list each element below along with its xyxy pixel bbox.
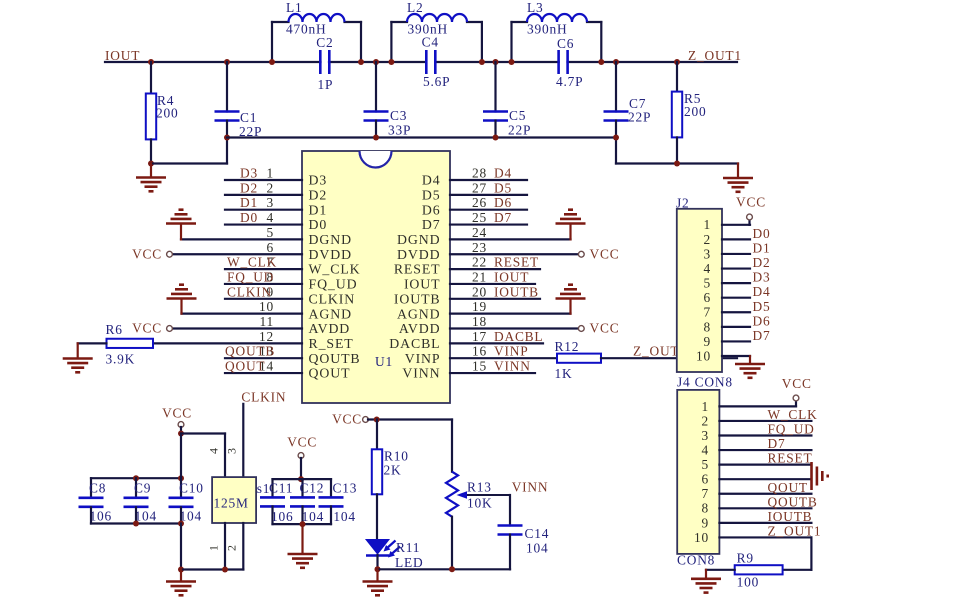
wire U1 pin 21 bbox=[450, 283, 535, 285]
wire C1 bottom lead bbox=[226, 121, 228, 164]
ground left of pin 5 bbox=[166, 210, 196, 224]
svg-text:CON8: CON8 bbox=[677, 553, 715, 568]
wire U1 pin 10 bbox=[182, 313, 303, 315]
svg-text:1: 1 bbox=[207, 545, 221, 551]
svg-text:9: 9 bbox=[702, 515, 710, 530]
wire R4 to C1 bottom bbox=[151, 162, 227, 164]
svg-text:10: 10 bbox=[259, 299, 274, 314]
capacitor C12 bbox=[290, 496, 315, 499]
ground J4 pin6 bbox=[812, 462, 828, 490]
ground right of pin 19 bbox=[556, 285, 586, 299]
svg-text:4: 4 bbox=[267, 210, 275, 225]
svg-text:6: 6 bbox=[267, 240, 275, 255]
junction L3 left bbox=[509, 59, 515, 65]
svg-text:DVDD: DVDD bbox=[397, 247, 440, 262]
svg-text:17: 17 bbox=[472, 329, 487, 344]
svg-text:VINN: VINN bbox=[494, 359, 531, 374]
power port VCC left pin6 bbox=[167, 251, 173, 257]
ground below R4 bbox=[136, 178, 166, 192]
svg-text:22: 22 bbox=[472, 255, 487, 270]
wire J2 pin 6 bbox=[722, 297, 750, 299]
svg-text:QOUTB: QOUTB bbox=[225, 344, 275, 359]
connector J4 body bbox=[677, 390, 719, 554]
wire LED cathode lead bbox=[376, 555, 378, 569]
wire U1 pin 12 bbox=[153, 342, 302, 344]
wire U1 pin 19 bbox=[450, 313, 571, 315]
svg-text:D3: D3 bbox=[240, 166, 258, 181]
svg-text:Z_OUT1: Z_OUT1 bbox=[768, 523, 822, 538]
wire L3 right riser bbox=[600, 22, 602, 62]
svg-text:C10: C10 bbox=[179, 481, 204, 496]
wire R5 top lead bbox=[676, 62, 678, 92]
svg-text:VCC: VCC bbox=[782, 376, 812, 391]
svg-text:22P: 22P bbox=[508, 123, 531, 138]
junction C3 tap bbox=[373, 59, 379, 65]
wire osc vcc stem bbox=[180, 427, 182, 434]
wire J4 pin 3 bbox=[719, 434, 811, 436]
svg-text:2K: 2K bbox=[384, 463, 402, 478]
svg-text:R6: R6 bbox=[106, 322, 123, 337]
svg-text:C8: C8 bbox=[89, 481, 106, 496]
ground right of pin 24 bbox=[556, 210, 586, 224]
svg-text:6: 6 bbox=[704, 290, 712, 305]
svg-text:1: 1 bbox=[267, 166, 275, 181]
wire R10 to LED bbox=[376, 494, 378, 539]
svg-text:104: 104 bbox=[302, 509, 325, 524]
svg-text:C3: C3 bbox=[390, 108, 407, 123]
wire vcc vertical to rail bbox=[180, 434, 182, 479]
junction R5 tap bbox=[674, 59, 680, 65]
wire J2 pin 8 bbox=[722, 326, 750, 328]
wire R5 bottom lead bbox=[676, 137, 678, 163]
svg-text:4.7P: 4.7P bbox=[556, 74, 583, 89]
wire J4 pin 8 bbox=[719, 507, 811, 509]
wire C7 top lead bbox=[615, 62, 617, 112]
svg-text:W_CLK: W_CLK bbox=[227, 255, 277, 270]
junction R5 gnd node bbox=[674, 161, 680, 167]
wire U1 pin 8 bbox=[225, 283, 302, 285]
ground stem pin5 bbox=[180, 226, 182, 240]
svg-text:VCC: VCC bbox=[332, 412, 362, 427]
wire U1 pin 28 bbox=[450, 179, 527, 181]
wire right gnd rail bbox=[616, 162, 738, 164]
svg-text:C5: C5 bbox=[509, 108, 526, 123]
inductor L1 bbox=[272, 14, 361, 22]
ground below LED bbox=[363, 582, 393, 596]
ground stem pin19 bbox=[569, 301, 571, 314]
svg-text:VINP: VINP bbox=[405, 351, 441, 366]
svg-text:9: 9 bbox=[704, 334, 712, 349]
capacitor C10 bbox=[169, 496, 194, 499]
ground stem filter right bbox=[737, 164, 739, 178]
svg-text:C2: C2 bbox=[316, 35, 333, 50]
junction gnd rail node bbox=[178, 567, 184, 573]
svg-text:4: 4 bbox=[207, 448, 221, 454]
wire bottom rail R10 group bbox=[378, 568, 511, 570]
svg-text:4: 4 bbox=[704, 261, 712, 276]
wire U1 pin 13 bbox=[225, 357, 302, 359]
junction C7 tap bbox=[613, 59, 619, 65]
junction C7 rail node bbox=[613, 135, 619, 141]
wire J4 pin1 riser bbox=[795, 401, 797, 407]
wire R10 top lead bbox=[376, 420, 378, 450]
wire U1 pin 9 bbox=[225, 298, 302, 300]
svg-text:3: 3 bbox=[267, 195, 275, 210]
wire U1 pin 3 bbox=[225, 209, 302, 211]
power port VCC R10 supply bbox=[363, 417, 369, 423]
LED R11 bbox=[366, 540, 400, 558]
ground stem oscillator bbox=[180, 570, 182, 581]
junction C3 rail node bbox=[373, 135, 379, 141]
wire U1 pin 11 bbox=[172, 327, 302, 329]
svg-text:RESET: RESET bbox=[494, 255, 539, 270]
svg-text:100: 100 bbox=[737, 575, 760, 590]
wire U1 pin 23 bbox=[450, 253, 577, 255]
svg-text:12: 12 bbox=[259, 329, 274, 344]
svg-text:VCC: VCC bbox=[132, 246, 162, 261]
wire C12 top lead bbox=[301, 479, 303, 497]
potentiometer R13 bbox=[446, 472, 458, 517]
wire C14 bottom lead bbox=[509, 535, 511, 570]
svg-text:VCC: VCC bbox=[162, 406, 192, 421]
wire U1 pin 24 bbox=[450, 238, 571, 240]
wire L3 left riser bbox=[510, 22, 512, 62]
svg-text:D3: D3 bbox=[309, 173, 328, 188]
svg-text:2: 2 bbox=[704, 232, 712, 247]
wire filter bottom rail bbox=[227, 136, 616, 138]
junction R13 gnd node bbox=[449, 566, 455, 572]
svg-text:1: 1 bbox=[702, 399, 710, 414]
svg-text:VINP: VINP bbox=[494, 344, 528, 359]
power port VCC J2 pin1 bbox=[747, 214, 753, 220]
svg-text:23: 23 bbox=[472, 240, 487, 255]
svg-text:19: 19 bbox=[472, 299, 487, 314]
ground stem R6 bbox=[77, 343, 79, 357]
junction L1 left bbox=[269, 59, 275, 65]
junction L2 right bbox=[479, 59, 485, 65]
svg-text:10K: 10K bbox=[467, 496, 492, 511]
svg-text:L1: L1 bbox=[286, 0, 302, 15]
wire R4 top lead bbox=[150, 62, 152, 94]
wire J2 pin 5 bbox=[722, 282, 750, 284]
ground stem C12 group bbox=[301, 524, 303, 553]
svg-text:104: 104 bbox=[526, 541, 549, 556]
wire C9 top lead bbox=[135, 478, 137, 497]
wire U1 pin 2 bbox=[225, 194, 302, 196]
wire CLKIN to osc pin3 bbox=[242, 404, 244, 477]
wire U1 pin 18 bbox=[450, 327, 577, 329]
svg-text:VINN: VINN bbox=[512, 480, 549, 495]
wire osc pin4 bbox=[224, 434, 226, 478]
svg-text:18: 18 bbox=[472, 314, 487, 329]
capacitor C8 bbox=[79, 496, 104, 499]
wire C14 top link bbox=[509, 495, 511, 526]
wire U1 pin 15 bbox=[450, 372, 535, 374]
svg-text:C4: C4 bbox=[422, 35, 439, 50]
svg-text:D2: D2 bbox=[240, 180, 258, 195]
svg-text:21: 21 bbox=[472, 269, 487, 284]
junction C1 tap bbox=[224, 59, 230, 65]
svg-text:R11: R11 bbox=[396, 540, 420, 555]
svg-text:D6: D6 bbox=[494, 195, 512, 210]
junction C5 tap bbox=[493, 59, 499, 65]
svg-text:AVDD: AVDD bbox=[399, 321, 441, 336]
svg-text:DACBL: DACBL bbox=[389, 336, 440, 351]
wire U1 pin 6 bbox=[172, 253, 302, 255]
svg-text:D1: D1 bbox=[309, 202, 328, 217]
wire R9 right link bbox=[783, 569, 812, 571]
wire main rail seg4 to Z_OUT1 bbox=[568, 61, 738, 63]
svg-text:10: 10 bbox=[694, 530, 709, 545]
ground stem R9 bbox=[705, 570, 707, 578]
wire C5 top lead bbox=[494, 62, 496, 112]
ground left of pin 10 bbox=[167, 285, 197, 299]
svg-text:R13: R13 bbox=[467, 480, 492, 495]
svg-text:VCC: VCC bbox=[132, 321, 162, 336]
wire U1 pin 7 bbox=[225, 268, 302, 270]
svg-text:FQ_UD: FQ_UD bbox=[227, 269, 274, 284]
ground below oscillator bbox=[166, 582, 196, 596]
wire main rail seg3 bbox=[435, 61, 558, 63]
wire osc gnd rail bbox=[181, 568, 243, 570]
wire R4 bottom lead bbox=[150, 139, 152, 163]
svg-text:QOUT: QOUT bbox=[225, 359, 265, 374]
svg-text:IOUT: IOUT bbox=[105, 48, 140, 63]
svg-text:R12: R12 bbox=[555, 339, 580, 354]
wire R9 left link bbox=[706, 569, 735, 571]
svg-text:3: 3 bbox=[225, 448, 239, 454]
svg-text:W_CLK: W_CLK bbox=[309, 262, 361, 277]
wire main rail seg1 IOUT bbox=[105, 61, 321, 63]
svg-text:IOUTB: IOUTB bbox=[494, 284, 539, 299]
svg-text:2: 2 bbox=[225, 545, 239, 551]
resistor R12 bbox=[557, 354, 601, 363]
svg-text:D3: D3 bbox=[753, 270, 771, 285]
svg-text:D6: D6 bbox=[422, 202, 441, 217]
wire C13 bottom lead bbox=[330, 506, 332, 524]
wire C12 bottom lead bbox=[301, 506, 303, 524]
wire J2 pin 1 bbox=[722, 224, 750, 226]
svg-text:D2: D2 bbox=[753, 255, 771, 270]
capacitor C9 bbox=[124, 496, 149, 499]
resistor R6 bbox=[107, 339, 154, 348]
svg-text:1P: 1P bbox=[318, 77, 334, 92]
svg-text:C12: C12 bbox=[300, 481, 325, 496]
wire C13 top lead bbox=[330, 479, 332, 497]
svg-text:D1: D1 bbox=[240, 195, 258, 210]
wire vcc feed bbox=[368, 418, 452, 420]
svg-text:QOUT: QOUT bbox=[768, 480, 808, 495]
wire caps right vcc stem bbox=[300, 458, 302, 479]
svg-text:15: 15 bbox=[472, 359, 487, 374]
svg-text:D4: D4 bbox=[753, 284, 771, 299]
svg-text:AVDD: AVDD bbox=[309, 321, 351, 336]
svg-text:DGND: DGND bbox=[397, 232, 440, 247]
svg-text:C14: C14 bbox=[525, 526, 550, 541]
wire L2 left riser bbox=[390, 22, 392, 62]
capacitor C4 bbox=[425, 50, 428, 74]
svg-text:D5: D5 bbox=[753, 299, 771, 314]
wire C8 bottom lead bbox=[90, 507, 92, 523]
svg-text:C11: C11 bbox=[269, 481, 293, 496]
svg-text:IOUTB: IOUTB bbox=[768, 509, 813, 524]
svg-text:104: 104 bbox=[333, 509, 356, 524]
svg-text:8: 8 bbox=[704, 319, 712, 334]
wire J2 pin 4 bbox=[722, 267, 750, 269]
wire C9 bottom lead bbox=[135, 507, 137, 523]
svg-text:5.6P: 5.6P bbox=[423, 74, 450, 89]
capacitor C2 bbox=[319, 50, 322, 74]
svg-text:10: 10 bbox=[696, 348, 711, 363]
svg-text:DGND: DGND bbox=[309, 232, 352, 247]
svg-text:D0: D0 bbox=[240, 210, 258, 225]
svg-text:D6: D6 bbox=[753, 313, 771, 328]
wire U1 pin 27 bbox=[450, 194, 527, 196]
wire J2 pin 9 bbox=[722, 340, 750, 342]
svg-text:QOUTB: QOUTB bbox=[768, 494, 818, 509]
wire caps2 top rail bbox=[273, 478, 332, 480]
inductor L3 bbox=[512, 14, 602, 22]
wire J4 pin 6 bbox=[719, 478, 811, 480]
svg-text:33P: 33P bbox=[388, 123, 411, 138]
wire U1 pin 4 bbox=[225, 223, 302, 225]
R13 wiper arrow bbox=[457, 491, 511, 499]
junction C9 bottom node bbox=[133, 521, 139, 527]
capacitor C5 bbox=[483, 110, 508, 113]
svg-text:16: 16 bbox=[472, 344, 487, 359]
wire C7 bottom lead bbox=[615, 121, 617, 164]
wire L1 right riser bbox=[360, 22, 362, 62]
svg-text:3: 3 bbox=[704, 246, 712, 261]
svg-text:AGND: AGND bbox=[397, 306, 440, 321]
wire C8 top lead bbox=[90, 478, 92, 497]
wire caps bottom rail bbox=[91, 522, 181, 524]
wire J2 pin1 riser bbox=[748, 220, 750, 225]
IC notch bbox=[360, 151, 392, 168]
wire R13 feed bbox=[451, 420, 453, 472]
svg-text:27: 27 bbox=[472, 180, 487, 195]
svg-text:D7: D7 bbox=[753, 328, 771, 343]
wire U1 pin 17 bbox=[450, 342, 543, 344]
wire J4 pin10 drop bbox=[810, 537, 812, 569]
svg-text:CLKIN: CLKIN bbox=[241, 390, 286, 405]
svg-text:7: 7 bbox=[702, 486, 710, 501]
resistor R4 bbox=[146, 94, 156, 140]
svg-text:R9: R9 bbox=[737, 551, 754, 566]
wire J4 pin 4 bbox=[719, 449, 811, 451]
wire C11 bottom lead bbox=[271, 506, 273, 524]
svg-text:200: 200 bbox=[156, 106, 179, 121]
power port VCC right pin23 bbox=[578, 251, 584, 257]
junction caps2 bottom node bbox=[300, 521, 306, 527]
svg-text:CLKIN: CLKIN bbox=[227, 284, 272, 299]
resistor R10 bbox=[372, 449, 382, 494]
power port VCC right pin18 bbox=[578, 326, 584, 332]
svg-text:28: 28 bbox=[472, 166, 487, 181]
svg-text:D4: D4 bbox=[494, 166, 512, 181]
svg-text:R_SET: R_SET bbox=[309, 336, 354, 351]
power port VCC left pin11 bbox=[167, 326, 173, 332]
svg-text:D4: D4 bbox=[422, 173, 441, 188]
svg-text:QOUT: QOUT bbox=[309, 366, 351, 381]
wire osc pin4 link bbox=[181, 432, 225, 434]
wire U1 pin 5 bbox=[181, 238, 302, 240]
svg-text:D0: D0 bbox=[309, 217, 328, 232]
ground below R9 bbox=[691, 579, 721, 593]
wire C1 top lead bbox=[226, 62, 228, 112]
op IC U1 AD9850 body bbox=[302, 151, 450, 403]
wire C10 drop bbox=[180, 524, 182, 570]
wire J2 pin 3 bbox=[722, 253, 750, 255]
wire U1 pin 16 bbox=[450, 357, 557, 359]
svg-text:C13: C13 bbox=[333, 481, 358, 496]
wire L2 right riser bbox=[481, 22, 483, 62]
svg-text:AGND: AGND bbox=[309, 306, 352, 321]
wire U1 pin 1 bbox=[225, 179, 302, 181]
junction LED gnd node bbox=[375, 566, 381, 572]
svg-text:5: 5 bbox=[267, 225, 275, 240]
wire U1 pin 25 bbox=[450, 223, 527, 225]
wire J4 pin 7 bbox=[719, 493, 811, 495]
junction L3 right bbox=[598, 59, 604, 65]
svg-text:DVDD: DVDD bbox=[309, 247, 352, 262]
junction C5 rail node bbox=[493, 135, 499, 141]
svg-text:11: 11 bbox=[260, 314, 275, 329]
power port VCC osc supply bbox=[178, 422, 184, 428]
power port VCC J4 pin1 bbox=[793, 395, 799, 401]
svg-text:D7: D7 bbox=[494, 210, 512, 225]
svg-text:106: 106 bbox=[90, 509, 113, 524]
resistor R9 bbox=[735, 565, 783, 574]
capacitor C11 bbox=[260, 496, 285, 499]
wire L1 left riser bbox=[271, 22, 273, 62]
capacitor C3 bbox=[364, 110, 389, 113]
svg-text:D0: D0 bbox=[753, 226, 771, 241]
wire U1 pin 26 bbox=[450, 209, 527, 211]
svg-text:VINN: VINN bbox=[402, 366, 440, 381]
svg-text:QOUTB: QOUTB bbox=[309, 351, 361, 366]
junction R10 tap bbox=[374, 417, 380, 423]
svg-text:125M: 125M bbox=[214, 496, 249, 511]
svg-text:D7: D7 bbox=[422, 217, 441, 232]
svg-text:C1: C1 bbox=[240, 110, 257, 125]
svg-text:D1: D1 bbox=[753, 240, 771, 255]
wire C11 top lead bbox=[271, 479, 273, 497]
ground stem LED bbox=[376, 569, 378, 580]
svg-text:3.9K: 3.9K bbox=[106, 352, 136, 367]
svg-text:IOUT: IOUT bbox=[404, 277, 441, 292]
svg-text:L2: L2 bbox=[407, 0, 423, 15]
junction L1 right bbox=[358, 59, 364, 65]
wire main rail seg2 bbox=[329, 61, 426, 63]
junction C10 top node bbox=[178, 475, 184, 481]
svg-text:D5: D5 bbox=[422, 187, 441, 202]
ground below C12 bbox=[288, 554, 318, 568]
svg-text:1: 1 bbox=[704, 217, 712, 232]
capacitor C14 bbox=[498, 524, 523, 527]
svg-text:C9: C9 bbox=[134, 481, 151, 496]
svg-text:2: 2 bbox=[702, 413, 710, 428]
svg-text:RESET: RESET bbox=[768, 451, 813, 466]
wire caps2 bottom rail bbox=[273, 523, 332, 525]
svg-text:VCC: VCC bbox=[736, 195, 766, 210]
svg-text:8: 8 bbox=[702, 501, 710, 516]
svg-text:RESET: RESET bbox=[394, 262, 441, 277]
wire osc pin2 bbox=[242, 523, 244, 570]
svg-text:24: 24 bbox=[472, 225, 487, 240]
wire J4 pin 2 bbox=[719, 420, 811, 422]
wire J2 pin 2 bbox=[722, 238, 750, 240]
